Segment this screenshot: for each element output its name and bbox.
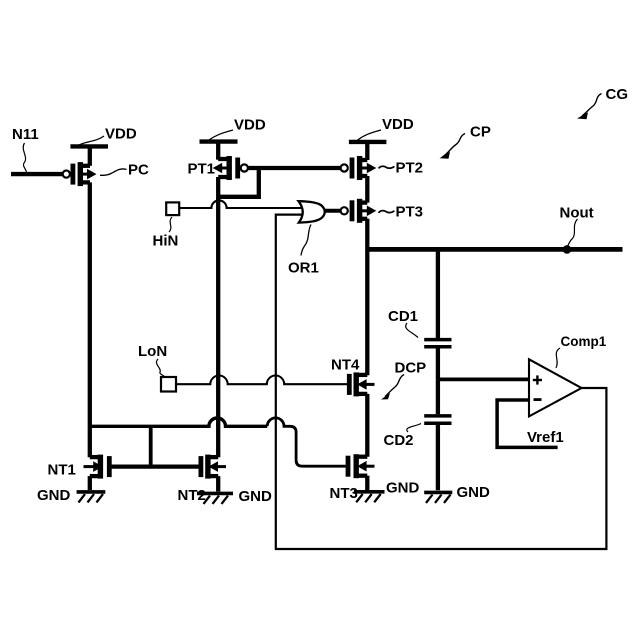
or-gate OR1 bbox=[299, 201, 325, 222]
transistor NT1 bbox=[84, 455, 110, 479]
wire Vref1 to comparator inverting input bbox=[497, 400, 557, 447]
ground (NT1) bbox=[77, 492, 106, 503]
svg-text:NT1: NT1 bbox=[48, 462, 76, 479]
wire LoN to NT4 gate with hops bbox=[176, 376, 349, 385]
ground (CD2) bbox=[424, 492, 452, 503]
transistor PT2 bbox=[341, 156, 377, 180]
transistor NT2 bbox=[201, 455, 226, 479]
svg-text:NT4: NT4 bbox=[331, 356, 360, 373]
wire rail to NT3 gate with hop bbox=[267, 418, 346, 466]
wire NT2 source to ground bbox=[216, 476, 220, 491]
wire NT4 source to NT3 drain bbox=[365, 394, 369, 457]
label VDD (PC) bbox=[77, 126, 137, 147]
label VDD (PT1) bbox=[208, 117, 266, 141]
label PC bbox=[100, 162, 149, 179]
svg-text:NT2: NT2 bbox=[178, 487, 206, 504]
wire HiN to OR1 input with hop bbox=[179, 200, 303, 208]
label CP with arrow bbox=[440, 124, 491, 159]
label OR1 bbox=[288, 225, 319, 277]
transistor NT4 bbox=[349, 372, 374, 396]
wire CD1 to DCP node bbox=[436, 347, 440, 380]
wire DCP node to CD2 bbox=[436, 379, 440, 414]
wire VDD to PT1 source bbox=[216, 142, 220, 160]
label CD2 bbox=[384, 424, 422, 450]
svg-text:LoN: LoN bbox=[138, 343, 167, 360]
VDD rail (PT1) bbox=[200, 139, 238, 143]
svg-text:CD2: CD2 bbox=[384, 432, 414, 449]
input terminal LoN bbox=[138, 343, 176, 392]
ground (NT3) bbox=[354, 492, 385, 503]
svg-text:HiN: HiN bbox=[153, 233, 179, 250]
label PT2 bbox=[379, 160, 424, 177]
ground (NT2) bbox=[197, 493, 233, 504]
wire CD branch from Nout bbox=[436, 249, 440, 338]
wire NT1 gate to NT2 gate bbox=[109, 465, 201, 469]
svg-text:GND: GND bbox=[239, 488, 273, 505]
wire PC drain down to NT1 drain bbox=[88, 182, 92, 457]
wire comparator output feedback to OR1 bbox=[276, 215, 607, 549]
wire PT2 drain to PT3 source bbox=[365, 176, 369, 203]
svg-text:PT3: PT3 bbox=[396, 204, 424, 221]
svg-text:Comp1: Comp1 bbox=[561, 334, 607, 349]
VDD rail (PC) bbox=[70, 144, 108, 148]
transistor PT3 bbox=[341, 199, 377, 223]
label VDD (PT2) bbox=[357, 116, 414, 141]
svg-text:Nout: Nout bbox=[560, 205, 594, 222]
svg-text:Vref1: Vref1 bbox=[527, 429, 564, 446]
label DCP with arrow bbox=[381, 360, 426, 400]
wire NT1 source to ground bbox=[88, 476, 92, 490]
label PT3 bbox=[379, 204, 424, 221]
svg-text:VDD: VDD bbox=[382, 116, 414, 133]
svg-text:N11: N11 bbox=[12, 126, 39, 143]
capacitor CD1 bbox=[424, 340, 451, 347]
label CG with arrow bbox=[577, 86, 628, 119]
wire VDD to PT2 source bbox=[365, 142, 369, 160]
wire PT1 drain down to NT2 drain bbox=[216, 177, 220, 457]
svg-text:CD1: CD1 bbox=[388, 308, 418, 325]
wire PT1 gate-drain tie bbox=[218, 168, 259, 197]
svg-text:CG: CG bbox=[606, 86, 629, 103]
svg-text:NT3: NT3 bbox=[330, 485, 358, 502]
wire Nout net bbox=[367, 247, 622, 252]
svg-text:OR1: OR1 bbox=[288, 259, 319, 276]
wire VDD to PC source bbox=[88, 146, 92, 165]
svg-text:GND: GND bbox=[37, 487, 71, 504]
wire PT1 gate to PT2 gate bbox=[248, 166, 340, 170]
wire PT3 drain down through NT4 node bbox=[365, 219, 369, 375]
svg-text:PC: PC bbox=[128, 162, 149, 179]
svg-text:PT1: PT1 bbox=[188, 161, 216, 178]
svg-text:VDD: VDD bbox=[234, 117, 266, 134]
wire CD2 to ground bbox=[436, 423, 440, 490]
transistor NT3 bbox=[348, 454, 375, 478]
label N11 bbox=[12, 126, 39, 172]
input terminal HiN bbox=[153, 202, 180, 249]
wire OR1 output to PT3 gate bbox=[324, 209, 341, 213]
label Nout bbox=[560, 205, 594, 248]
wire DCP node to comparator bbox=[438, 377, 529, 381]
wire boost rail with hop bbox=[90, 418, 267, 426]
svg-text:GND: GND bbox=[457, 484, 491, 501]
svg-text:PT2: PT2 bbox=[396, 160, 424, 177]
svg-text:CP: CP bbox=[470, 124, 491, 141]
wire NT3 source to ground bbox=[365, 476, 369, 490]
label Comp1 bbox=[556, 334, 607, 368]
VDD rail (PT2) bbox=[349, 140, 387, 144]
svg-text:VDD: VDD bbox=[105, 126, 137, 143]
transistor PT1 bbox=[213, 156, 248, 180]
node Nout dot bbox=[563, 245, 572, 254]
capacitor CD2 bbox=[424, 416, 451, 423]
wire gate tie to drain rail bbox=[149, 426, 153, 466]
svg-text:DCP: DCP bbox=[395, 360, 427, 377]
label CD1 bbox=[388, 308, 418, 338]
svg-text:GND: GND bbox=[386, 480, 420, 497]
wire N11 input bbox=[11, 172, 63, 176]
op-amp Comp1 bbox=[529, 359, 582, 416]
transistor PC bbox=[63, 162, 97, 186]
